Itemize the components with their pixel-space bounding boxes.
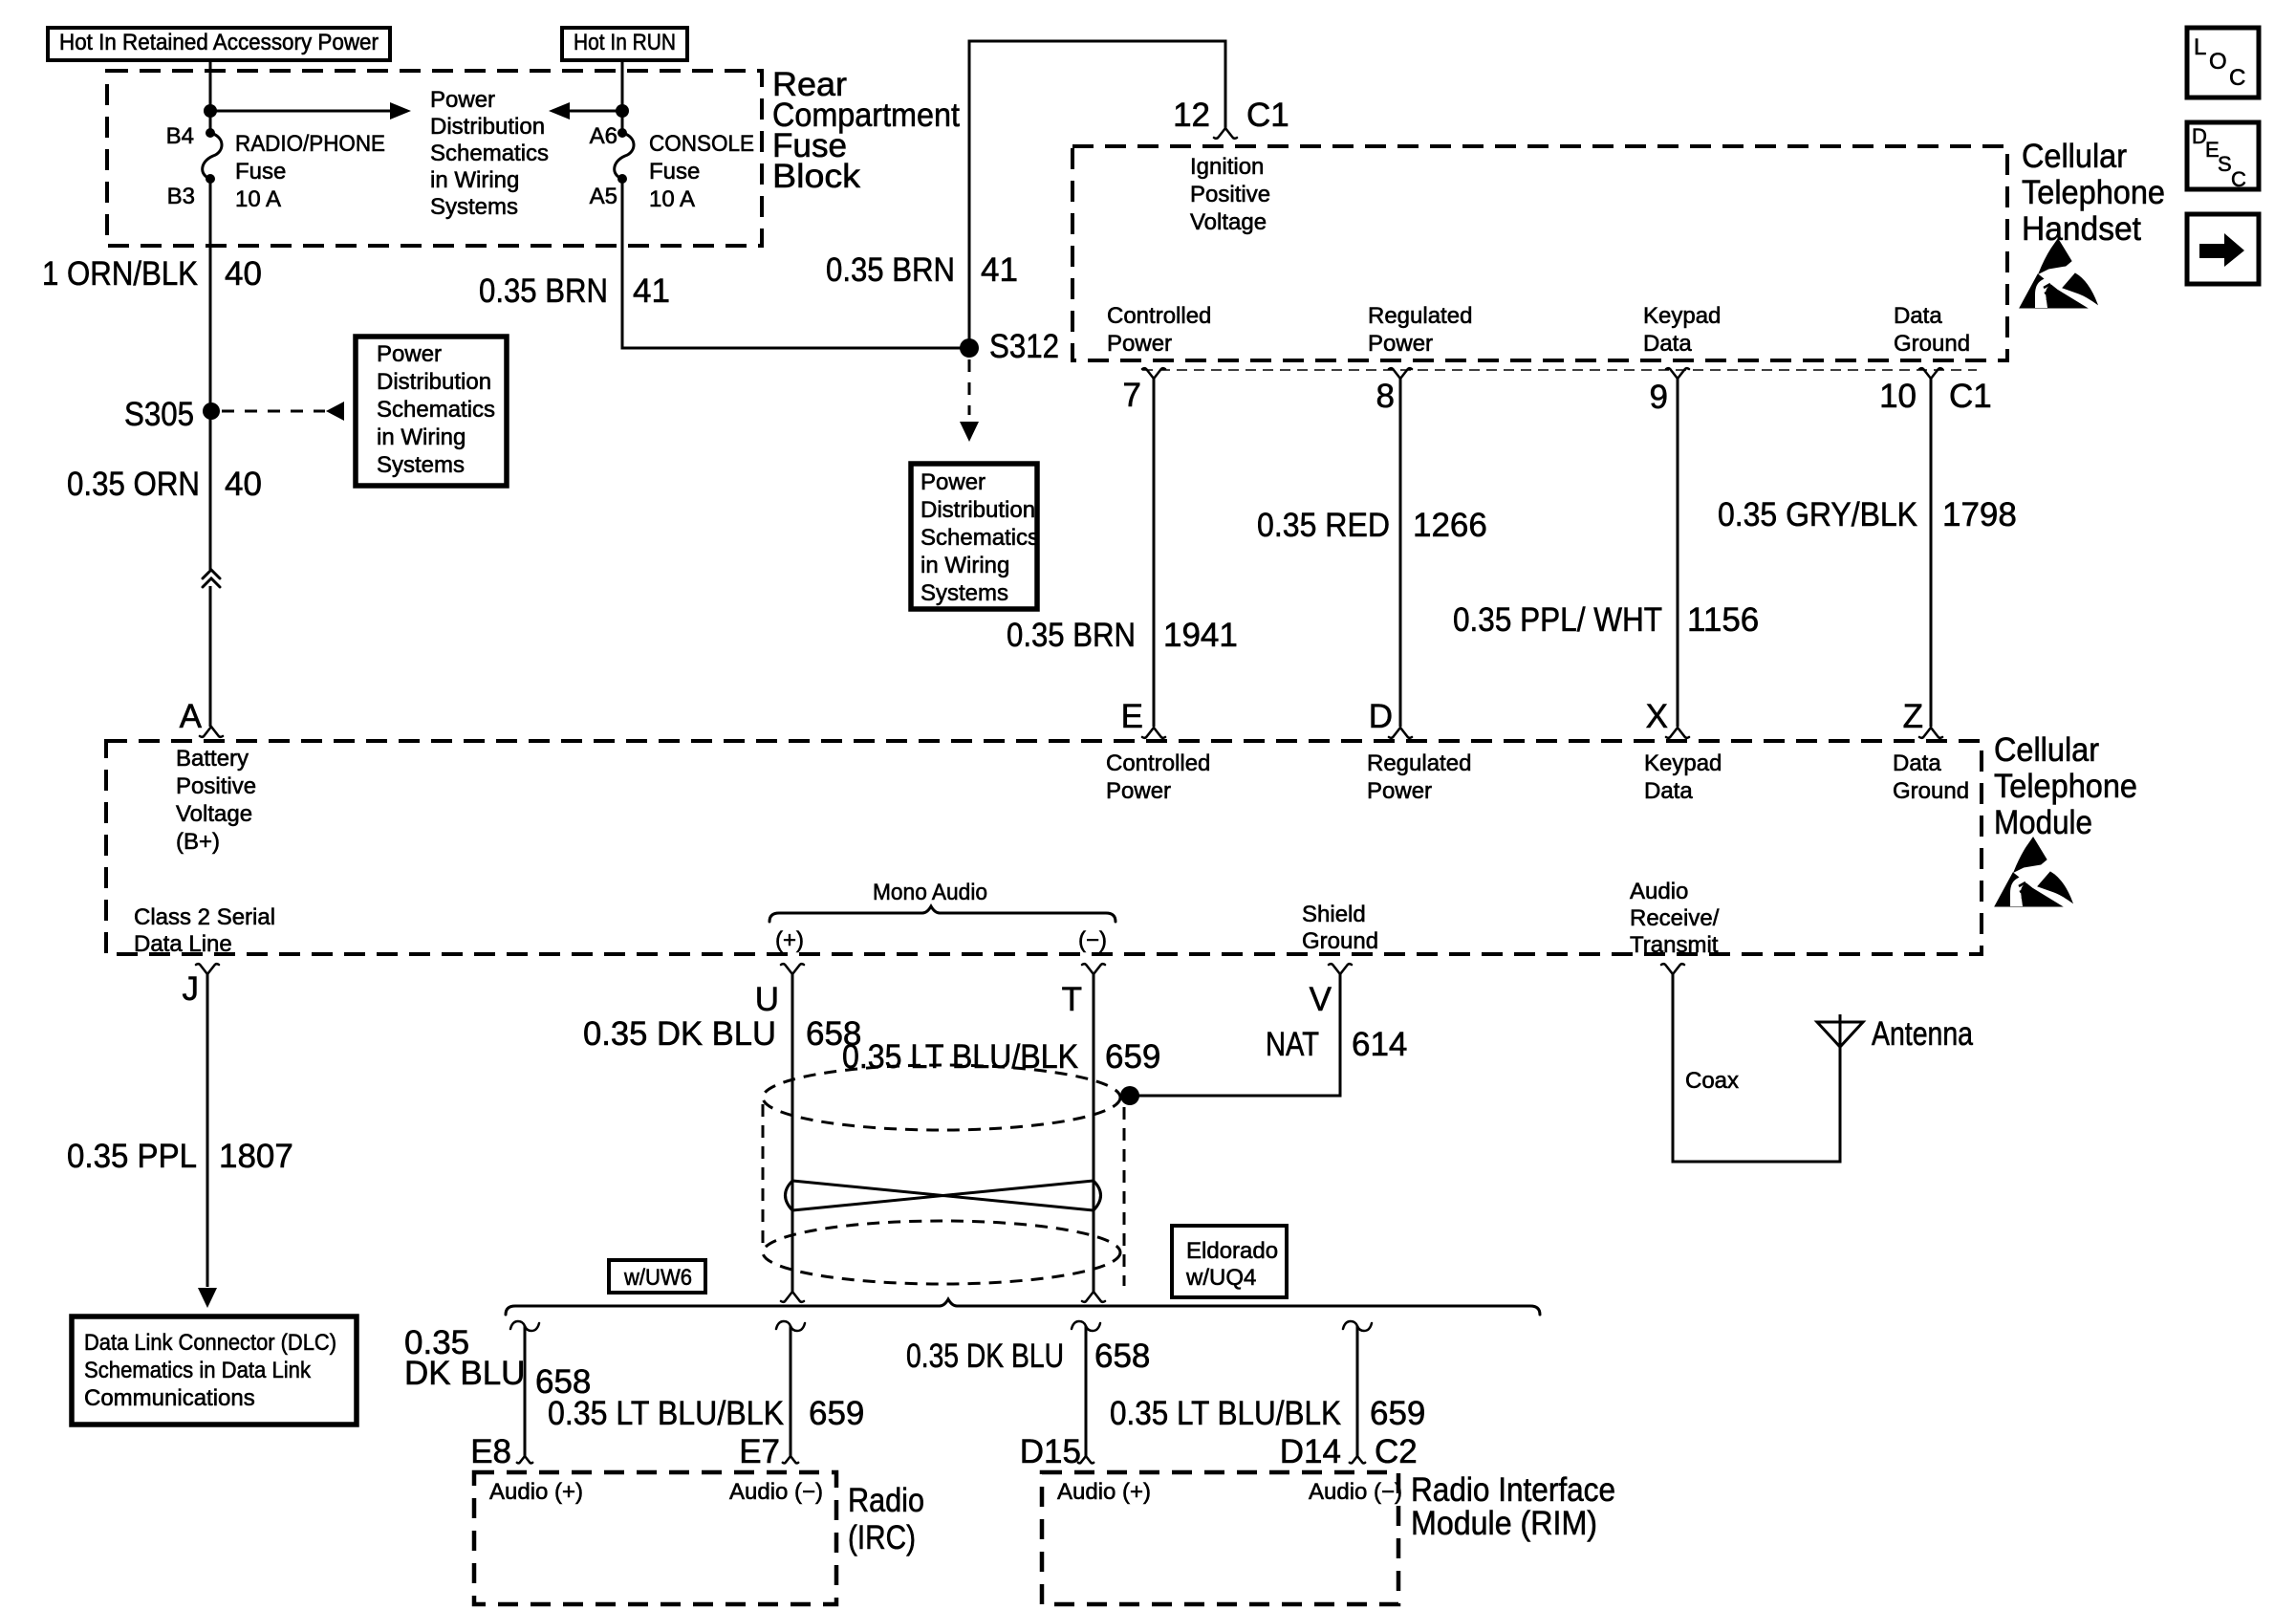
wire E8 in-line connector wave: [510, 1321, 539, 1331]
svg-text:Audio (+): Audio (+): [1057, 1479, 1151, 1505]
Cellular Telephone Handset dashed box: [1072, 146, 2007, 360]
wire: NAT 614 shield ground drain: [1139, 974, 1340, 1096]
reference arrowhead pointing down: [960, 422, 979, 442]
svg-text:Ground: Ground: [1894, 331, 1970, 357]
svg-text:658: 658: [1094, 1338, 1150, 1375]
connector C1 thin dashed line: [1142, 369, 1977, 371]
wire: LT BLU/BLK 659 to radio E7: [790, 1326, 792, 1456]
svg-text:J: J: [183, 970, 200, 1008]
svg-text:40: 40: [225, 466, 262, 503]
DESC icon box: [2187, 122, 2259, 189]
svg-text:(IRC): (IRC): [848, 1519, 916, 1556]
svg-text:Regulated: Regulated: [1367, 751, 1471, 776]
dashed reference from S312 down: [968, 359, 971, 415]
svg-text:Systems: Systems: [430, 194, 518, 220]
svg-text:Data Line: Data Line: [134, 931, 232, 957]
ESD sensitive symbol (handset): [2039, 239, 2071, 273]
svg-text:Keypad: Keypad: [1644, 751, 1722, 776]
Radio (IRC) dashed box: [474, 1472, 836, 1604]
svg-text:Fuse: Fuse: [235, 159, 286, 185]
svg-text:Regulated: Regulated: [1368, 303, 1472, 329]
fuse RADIO/PHONE 10A between B4 and B3: [206, 128, 215, 138]
fuse CONSOLE 10A between A6 and A5: [617, 128, 627, 138]
svg-text:0.35 GRY/BLK: 0.35 GRY/BLK: [1718, 496, 1917, 533]
svg-text:Controlled: Controlled: [1106, 751, 1210, 776]
svg-text:A: A: [180, 698, 203, 735]
svg-text:Hot In Retained Accessory Powe: Hot In Retained Accessory Power: [59, 30, 379, 55]
svg-text:D15: D15: [1020, 1433, 1081, 1470]
reference box: Power Distribution Schematics in Wiring Systems (below S312): [911, 464, 1037, 609]
svg-text:C: C: [2231, 167, 2246, 191]
wire: LT BLU/BLK 659 to RIM D14: [1356, 1326, 1359, 1456]
svg-text:(B+): (B+): [176, 829, 220, 855]
svg-text:Schematics: Schematics: [377, 397, 495, 423]
Cellular Telephone Module dashed box: [106, 741, 1982, 954]
svg-text:(−): (−): [1078, 927, 1107, 953]
svg-text:Telephone: Telephone: [2022, 174, 2165, 211]
svg-text:Power: Power: [921, 469, 986, 495]
svg-text:Receive/: Receive/: [1630, 905, 1720, 931]
arrow icon box: [2187, 214, 2259, 284]
coax wire to antenna: [1673, 974, 1840, 1162]
svg-text:Power: Power: [430, 87, 495, 113]
svg-text:C1: C1: [1246, 97, 1289, 134]
wire: RUN feed into fuse A6: [621, 60, 624, 133]
wire: PPL 1807 class 2 serial data: [206, 974, 209, 1287]
svg-text:S312: S312: [989, 328, 1059, 365]
wire D14 in-line connector wave: [1343, 1321, 1372, 1331]
shielded twisted pair: top dashed ellipse: [763, 1065, 1120, 1130]
svg-text:Audio: Audio: [1630, 879, 1688, 904]
svg-text:10: 10: [1879, 378, 1917, 415]
junction on RUN feed: [616, 104, 629, 118]
svg-text:0.35 BRN: 0.35 BRN: [479, 272, 608, 310]
Rear Compartment Fuse Block dashed box: [107, 71, 762, 246]
splice S312: [960, 338, 979, 358]
svg-text:Mono Audio: Mono Audio: [873, 880, 987, 905]
svg-text:Controlled: Controlled: [1107, 303, 1211, 329]
svg-text:B4: B4: [166, 123, 194, 149]
svg-text:Radio Interface: Radio Interface: [1411, 1471, 1615, 1509]
svg-text:w/UQ4: w/UQ4: [1185, 1265, 1256, 1291]
svg-text:Shield: Shield: [1302, 902, 1366, 927]
svg-text:D14: D14: [1280, 1433, 1341, 1470]
svg-text:1156: 1156: [1687, 601, 1759, 639]
pin Audio Receive/Transmit of module: [1661, 964, 1673, 974]
svg-text:12: 12: [1173, 97, 1210, 134]
svg-text:Cellular: Cellular: [2022, 138, 2127, 175]
svg-text:0.35 LT BLU/BLK: 0.35 LT BLU/BLK: [548, 1395, 784, 1432]
svg-text:8: 8: [1376, 378, 1395, 415]
svg-text:E7: E7: [739, 1433, 780, 1470]
Radio Interface Module dashed box: [1042, 1472, 1398, 1604]
shielded twisted pair: bottom dashed ellipse: [763, 1221, 1120, 1284]
svg-text:B3: B3: [167, 184, 195, 209]
wire: RED 1266 from handset pin 8 to module pin D: [1399, 379, 1402, 727]
label box: w/UW6: [609, 1260, 705, 1293]
svg-text:0.35 ORN: 0.35 ORN: [67, 466, 200, 503]
arrow to Power Distribution Schematics (left): [570, 110, 622, 113]
svg-text:614: 614: [1352, 1026, 1407, 1063]
svg-text:Eldorado: Eldorado: [1186, 1238, 1278, 1264]
label box: Hot In Retained Accessory Power: [48, 28, 390, 60]
svg-text:Schematics in Data Link: Schematics in Data Link: [84, 1358, 312, 1383]
svg-text:RADIO/PHONE: RADIO/PHONE: [235, 131, 385, 157]
wire: DK BLU 658 audio (+): [791, 974, 794, 1292]
svg-text:Transmit: Transmit: [1630, 932, 1719, 958]
svg-text:in Wiring: in Wiring: [377, 424, 466, 450]
svg-text:Audio (−): Audio (−): [729, 1479, 823, 1505]
twisted pair crossing symbol: [792, 1181, 1094, 1210]
junction on RAP feed: [204, 104, 217, 118]
svg-text:Power: Power: [1367, 778, 1432, 804]
svg-text:w/UW6: w/UW6: [623, 1265, 692, 1291]
svg-text:L: L: [2194, 34, 2206, 60]
reference box: Data Link Connector (DLC) Schematics in Data Link Communications: [72, 1316, 357, 1425]
wire D15 in-line connector wave: [1072, 1321, 1100, 1331]
svg-text:Voltage: Voltage: [1190, 209, 1267, 235]
svg-text:Data: Data: [1644, 778, 1693, 804]
svg-text:41: 41: [633, 272, 670, 310]
LOC icon box: [2187, 28, 2259, 98]
svg-text:Data Link Connector (DLC): Data Link Connector (DLC): [84, 1330, 336, 1356]
wire: DK BLU 658 to RIM D15: [1085, 1326, 1088, 1456]
svg-text:0.35 BRN: 0.35 BRN: [826, 251, 955, 289]
svg-text:E8: E8: [470, 1433, 511, 1470]
svg-text:(+): (+): [775, 927, 804, 953]
svg-text:659: 659: [809, 1395, 864, 1432]
svg-text:659: 659: [1370, 1395, 1425, 1432]
svg-text:0.35 PPL: 0.35 PPL: [67, 1138, 197, 1175]
svg-text:Power: Power: [1106, 778, 1171, 804]
svg-text:A6: A6: [590, 123, 617, 149]
arrow to Power Distribution Schematics (right): [210, 110, 392, 113]
svg-text:0.35 PPL/ WHT: 0.35 PPL/ WHT: [1453, 601, 1662, 639]
shield splice junction dot: [1120, 1086, 1139, 1105]
brace grouping mono audio pins: [769, 906, 1116, 922]
antenna symbol: [1817, 1022, 1863, 1047]
svg-text:C: C: [2229, 65, 2245, 91]
svg-text:Fuse: Fuse: [649, 159, 700, 185]
svg-text:Schematics: Schematics: [921, 525, 1039, 551]
reference arrowhead at Power Distribution box: [326, 402, 344, 421]
svg-text:Power: Power: [1368, 331, 1433, 357]
svg-text:T: T: [1062, 981, 1082, 1018]
svg-text:Distribution: Distribution: [921, 497, 1035, 523]
wire: LT BLU/BLK 659 audio (-): [1093, 974, 1095, 1292]
svg-text:X: X: [1646, 698, 1668, 735]
svg-text:Ignition: Ignition: [1190, 154, 1264, 180]
svg-text:Systems: Systems: [921, 580, 1008, 606]
svg-text:40: 40: [225, 255, 262, 293]
wire: ORN 40 continues down to module pin A: [209, 586, 212, 727]
svg-text:Hot In RUN: Hot In RUN: [574, 30, 676, 55]
svg-text:Audio (−): Audio (−): [1309, 1479, 1402, 1505]
svg-text:1 ORN/BLK: 1 ORN/BLK: [42, 255, 198, 293]
svg-text:S: S: [2218, 152, 2232, 176]
reference box: Power Distribution Schematics in Wiring Systems: [356, 337, 507, 486]
wire: BRN 1941 from handset pin 7 to module pin E: [1153, 379, 1156, 727]
wire: RAP feed into fuse B4: [209, 60, 212, 133]
svg-text:Coax: Coax: [1685, 1068, 1739, 1094]
wire: BRN 41 from fuse A5 down and right to splice S312: [622, 179, 961, 348]
wire E7 in-line connector wave: [776, 1321, 805, 1331]
svg-text:Schematics: Schematics: [430, 141, 549, 166]
svg-text:Data: Data: [1894, 303, 1942, 329]
arrowhead down to DLC reference box: [198, 1288, 217, 1308]
ESD sensitive symbol (module): [2014, 838, 2047, 872]
svg-text:1941: 1941: [1163, 617, 1238, 654]
dashed reference line from S305: [222, 410, 325, 413]
svg-text:Battery: Battery: [176, 746, 249, 772]
svg-text:10 A: 10 A: [649, 186, 695, 212]
svg-text:Handset: Handset: [2022, 210, 2141, 248]
wire: PPL/WHT 1156 from handset pin 9 to module pin X: [1677, 379, 1679, 727]
splice S305: [203, 402, 220, 420]
svg-text:Module (RIM): Module (RIM): [1411, 1505, 1597, 1542]
svg-text:7: 7: [1123, 377, 1141, 414]
svg-text:Radio: Radio: [848, 1482, 924, 1519]
svg-text:A5: A5: [590, 184, 617, 209]
svg-text:DK BLU: DK BLU: [404, 1355, 525, 1392]
svg-text:Audio (+): Audio (+): [489, 1479, 583, 1505]
svg-text:CONSOLE: CONSOLE: [649, 131, 754, 157]
svg-text:NAT: NAT: [1266, 1026, 1319, 1063]
svg-text:41: 41: [981, 251, 1018, 289]
wire: DK BLU 658 to radio E8: [524, 1326, 527, 1456]
svg-text:E: E: [1121, 698, 1143, 735]
svg-text:Distribution: Distribution: [430, 114, 545, 140]
label box: Eldorado w/UQ4: [1172, 1226, 1287, 1297]
svg-text:O: O: [2209, 49, 2227, 75]
svg-text:Data: Data: [1893, 751, 1941, 776]
svg-text:Ground: Ground: [1302, 928, 1378, 954]
svg-text:V: V: [1310, 981, 1332, 1018]
wire: GRY/BLK 1798 from handset pin 10 to module pin Z: [1930, 379, 1933, 727]
svg-text:Antenna: Antenna: [1872, 1015, 1973, 1053]
pin symbol at bottom of T wire: [1082, 1292, 1094, 1302]
svg-text:D: D: [1369, 698, 1393, 735]
svg-text:0.35 DK BLU: 0.35 DK BLU: [906, 1338, 1064, 1375]
shield left dashed side: [762, 1104, 765, 1248]
svg-text:Positive: Positive: [176, 773, 256, 799]
svg-text:0.35 BRN: 0.35 BRN: [1007, 617, 1136, 654]
svg-text:Ground: Ground: [1893, 778, 1969, 804]
svg-text:Class 2 Serial: Class 2 Serial: [134, 904, 275, 930]
svg-text:1798: 1798: [1942, 496, 2017, 533]
svg-text:Power: Power: [377, 341, 442, 367]
svg-text:in Wiring: in Wiring: [430, 167, 519, 193]
svg-text:in Wiring: in Wiring: [921, 553, 1009, 578]
svg-text:S305: S305: [124, 396, 194, 433]
svg-text:1807: 1807: [219, 1138, 293, 1175]
pin symbol at bottom of U wire: [781, 1292, 792, 1302]
svg-text:659: 659: [1105, 1038, 1160, 1076]
svg-text:U: U: [755, 981, 779, 1018]
label box: Hot In RUN: [562, 28, 687, 60]
svg-text:Block: Block: [772, 158, 861, 195]
svg-text:Cellular: Cellular: [1994, 731, 2099, 769]
svg-text:10 A: 10 A: [235, 186, 281, 212]
svg-text:Power: Power: [1107, 331, 1172, 357]
svg-text:Communications: Communications: [84, 1385, 255, 1411]
shield right dashed side: [1123, 1107, 1126, 1286]
svg-text:Distribution: Distribution: [377, 369, 491, 395]
wire: BRN 41 riser from S312 up over to handset pin 12: [969, 41, 1225, 348]
svg-text:Z: Z: [1903, 698, 1923, 735]
wire: ORN/BLK 40 from fuse B3 down to splice S305: [209, 179, 212, 570]
svg-text:C1: C1: [1949, 378, 1992, 415]
svg-text:Positive: Positive: [1190, 182, 1270, 207]
svg-text:1266: 1266: [1413, 507, 1487, 544]
big brace distributing audio pair to radios: [506, 1299, 1540, 1315]
svg-text:0.35 RED: 0.35 RED: [1257, 507, 1390, 544]
svg-text:0.35 DK BLU: 0.35 DK BLU: [583, 1015, 776, 1053]
svg-text:9: 9: [1650, 379, 1668, 416]
svg-text:Data: Data: [1643, 331, 1692, 357]
svg-text:Voltage: Voltage: [176, 801, 252, 827]
svg-text:Telephone: Telephone: [1994, 768, 2137, 805]
svg-text:Module: Module: [1994, 804, 2092, 841]
svg-text:Keypad: Keypad: [1643, 303, 1721, 329]
svg-text:0.35 LT BLU/BLK: 0.35 LT BLU/BLK: [1110, 1395, 1341, 1432]
svg-text:Systems: Systems: [377, 452, 465, 478]
svg-text:C2: C2: [1375, 1433, 1418, 1470]
in-line connector chevrons on ORN wire: [203, 570, 220, 578]
